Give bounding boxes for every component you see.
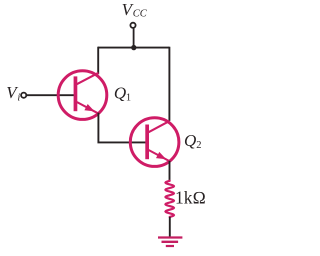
wire Q1 emitter to Q2 base	[98, 113, 147, 143]
svg-text:1: 1	[126, 93, 131, 104]
svg-text:1kΩ: 1kΩ	[175, 188, 206, 208]
wire Vi terminal to Q1 base	[27, 94, 76, 96]
wire rail to Q2 collector	[168, 47, 170, 121]
resistor 1kOhm (wavy coil)	[165, 181, 174, 217]
junction dot on VCC rail	[131, 45, 136, 50]
svg-text:Q: Q	[184, 131, 196, 150]
wire top VCC rail	[98, 47, 169, 49]
wire rail to Q1 collector	[97, 47, 99, 74]
svg-text:CC: CC	[133, 9, 148, 20]
svg-text:Q: Q	[114, 83, 126, 102]
svg-text:i: i	[17, 92, 20, 103]
wire resistor to ground	[169, 217, 171, 237]
wire Q2 emitter to resistor	[169, 161, 171, 181]
terminal Vi (open circle)	[21, 93, 26, 98]
transistor Q1	[58, 71, 107, 120]
label Q1	[114, 83, 131, 103]
transistor Q2	[130, 118, 179, 167]
svg-text:2: 2	[196, 140, 201, 151]
wire VCC terminal to rail	[133, 28, 135, 47]
terminal VCC (open circle)	[130, 23, 135, 28]
node VCC label	[122, 0, 148, 20]
node Vi label	[6, 83, 20, 103]
label Q2	[184, 131, 202, 151]
ground	[158, 238, 182, 247]
